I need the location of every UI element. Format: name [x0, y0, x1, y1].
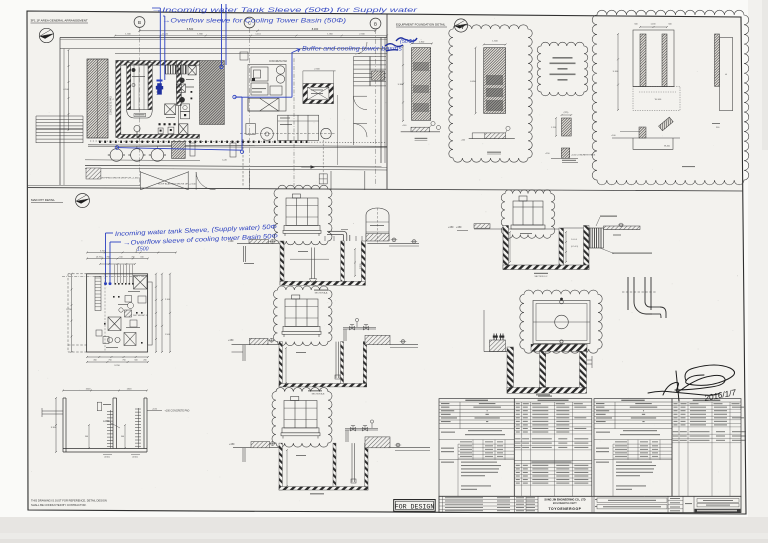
- svg-text:2.100: 2.100: [165, 299, 171, 301]
- S5 pit walls: [507, 347, 514, 393]
- svg-text:+150: +150: [229, 443, 235, 446]
- svg-text:→Overflow sleeve for Cooling T: →Overflow sleeve for Cooling Tower Basin…: [162, 18, 346, 25]
- pit plan dims top: [86, 252, 177, 254]
- svg-text:1.200: 1.200: [650, 24, 656, 26]
- grid bubble B: [134, 17, 145, 28]
- svg-text:+100 CONCRETE PAD: +100 CONCRETE PAD: [165, 410, 190, 413]
- plan outline: [633, 30, 674, 87]
- S4 label: [534, 273, 548, 274]
- svg-text:→Incoming water Tank Sleeve (5: →Incoming water Tank Sleeve (50Φ) for Su…: [151, 7, 418, 14]
- right column detail: [720, 38, 733, 111]
- pit section S3: [279, 443, 282, 490]
- svg-text:(150): (150): [104, 457, 109, 459]
- svg-text:5.700: 5.700: [66, 309, 72, 311]
- svg-text:SUNG JIN ENGINEERING CO., LTD: SUNG JIN ENGINEERING CO., LTD: [544, 499, 585, 502]
- svg-text:+150: +150: [228, 339, 234, 342]
- S3 right pad: [365, 437, 390, 448]
- svg-text:5.300: 5.300: [398, 84, 404, 86]
- north arrow: [76, 194, 90, 208]
- left dim chain: [68, 49, 70, 131]
- S4 sump right: [590, 228, 601, 248]
- svg-text:1.500: 1.500: [165, 334, 171, 336]
- svg-text:3F1 1F AREA GENERAL ARRANGEMEN: 3F1 1F AREA GENERAL ARRANGEMENT: [31, 19, 88, 23]
- S1 right water tank: [366, 208, 389, 241]
- svg-text:MAIN PIT DETAIL: MAIN PIT DETAIL: [31, 198, 55, 202]
- foundation 2 revision cloud: [449, 25, 532, 162]
- water level: [290, 258, 329, 260]
- svg-text:3.300: 3.300: [51, 427, 57, 429]
- blue dots in plan: [221, 4, 223, 65]
- top dimension line: [138, 30, 376, 32]
- svg-text:+100: +100: [402, 125, 406, 127]
- ladder rungs chamber 1: [107, 410, 113, 449]
- svg-text:+150: +150: [228, 240, 234, 243]
- left pipe into pit: [42, 410, 63, 412]
- S2 left pad: [249, 338, 268, 344]
- svg-text:2.300: 2.300: [314, 68, 320, 70]
- pipe bank comb: [166, 65, 186, 74]
- dim chains sides: [71, 273, 73, 353]
- cold water tank: [131, 64, 148, 110]
- svg-text:1500: 1500: [137, 247, 149, 253]
- grid line: [249, 28, 251, 186]
- pump circle: [151, 149, 164, 162]
- svg-text:1.300: 1.300: [419, 42, 425, 44]
- S2 dims/labels: [285, 347, 287, 384]
- foundation 1 hatched column: [412, 48, 431, 121]
- signature scribble: [648, 365, 735, 401]
- section 1 revision cloud: [274, 185, 332, 245]
- svg-text:4.100: 4.100: [63, 89, 69, 91]
- svg-text:ROOF BLASTING GROVE UFL+2.100: ROOF BLASTING GROVE UFL+2.100: [158, 183, 197, 186]
- svg-text:6.450: 6.450: [470, 81, 476, 83]
- project name box: [593, 496, 595, 513]
- dark hatched strip right of room: [200, 61, 225, 125]
- 1500 leader arc: [136, 246, 140, 253]
- svg-text:W-100: W-100: [655, 99, 662, 101]
- S4 ground strips: [474, 228, 503, 230]
- S3 interior pipe: [351, 443, 353, 482]
- svg-text:EQUIPMENT FOUNDATION DETAIL: EQUIPMENT FOUNDATION DETAIL: [396, 23, 446, 27]
- section 5 revision cloud: [520, 290, 602, 353]
- svg-text:W-100: W-100: [664, 146, 671, 148]
- S1 left pipe: [243, 246, 245, 262]
- ladder pit section bottom-left: [63, 398, 147, 452]
- revision table: [442, 496, 444, 512]
- section 4 revision cloud: [501, 190, 555, 239]
- north arrow: [454, 19, 467, 32]
- S5 left pedestal with anchor bolts: [490, 340, 506, 352]
- foundation 2 pad section: [472, 132, 485, 134]
- cloud label: [682, 166, 695, 167]
- pit section S2: [279, 342, 282, 387]
- svg-text:B: B: [374, 21, 377, 26]
- elevation symbols: [271, 240, 275, 244]
- left stair: [36, 116, 83, 143]
- water tank label: [370, 225, 384, 226]
- shaft centerline: [240, 133, 335, 135]
- tank pad: [366, 234, 389, 241]
- S5 pump plan in cloud: [533, 300, 590, 343]
- svg-text:SECTION C-C: SECTION C-C: [535, 276, 549, 278]
- S4 equipment inside cloud: [511, 196, 545, 229]
- pit section S1: [280, 241, 284, 285]
- pit label a: [311, 89, 323, 92]
- building right wall: [380, 38, 382, 164]
- floor hatch strips: [86, 168, 101, 179]
- dark pump block: [172, 141, 186, 158]
- S4 sump nozzle label: [600, 216, 617, 217]
- grid line x294: [293, 58, 295, 186]
- hatched strip b: [662, 34, 667, 87]
- dark hatched equipment strip (cooling tower): [87, 59, 108, 138]
- equipment description table left: [439, 399, 514, 497]
- blue annotation line 1: incoming water tank sleeve: [151, 7, 418, 53]
- blue sleeve fitting: [157, 83, 162, 94]
- svg-text:1500: 1500: [86, 389, 92, 391]
- dashed pad outline: [633, 86, 680, 110]
- svg-text:C-45: C-45: [222, 160, 228, 162]
- plot number block: [697, 499, 739, 503]
- S1 left pad: [249, 240, 269, 244]
- S4 top slab marks: [509, 228, 560, 230]
- S1 inner pipe: [311, 248, 313, 279]
- svg-text:TOYOENERGOP: TOYOENERGOP: [548, 507, 581, 511]
- S1 pipe from tank: [327, 230, 343, 232]
- dims: [62, 390, 148, 392]
- cooling tower basin pump S1: [283, 194, 321, 236]
- S3 left pad: [251, 442, 270, 448]
- svg-text:SHALL BE CONDUCTED BY CONTRACT: SHALL BE CONDUCTED BY CONTRACTOR.: [31, 503, 87, 507]
- section D-D label above table: [536, 394, 550, 395]
- pump circle: [110, 149, 123, 162]
- svg-text:ENGINEERING DEPT.: ENGINEERING DEPT.: [553, 502, 578, 505]
- buffer tank S2: [282, 295, 321, 337]
- dark bar bottom right: [695, 509, 741, 513]
- blue leader lines: [159, 8, 161, 88]
- S1 ground lines: [237, 242, 279, 244]
- svg-text:8.300: 8.300: [312, 27, 319, 31]
- svg-text:AIR PIPING GROVE DROP UFL+1.35: AIR PIPING GROVE DROP UFL+1.350: [100, 177, 139, 180]
- flow arrow: [301, 166, 313, 168]
- grid line: [139, 27, 141, 186]
- S3 label: [310, 493, 324, 494]
- svg-text:5.100: 5.100: [613, 71, 619, 73]
- svg-text:+150: +150: [448, 226, 454, 229]
- refrigeration pump unit: [246, 115, 331, 140]
- S1 small marks above pit: [324, 236, 326, 241]
- equipment description table right: [594, 399, 672, 497]
- building outline top: [60, 37, 387, 39]
- S2 ground lines: [232, 344, 280, 346]
- room interior equipment: [188, 66, 196, 75]
- svg-text:3.700: 3.700: [114, 365, 120, 367]
- svg-text:2.340: 2.340: [359, 34, 365, 36]
- brace bay below corridor: [141, 172, 189, 190]
- svg-text:1.360: 1.360: [327, 34, 333, 36]
- grid line: [375, 29, 377, 186]
- S2 interior pipe: [335, 342, 337, 378]
- S3 ground lines: [233, 447, 279, 449]
- nozzle list table left: [514, 399, 592, 497]
- svg-text:Buffer and cooling tower basin: Buffer and cooling tower basins: [302, 46, 402, 53]
- blue pipe run corridor: [117, 148, 242, 151]
- svg-text:3.700: 3.700: [100, 251, 106, 253]
- svg-text:WET WEIGHT 4T: WET WEIGHT 4T: [133, 315, 149, 317]
- svg-text:+100: +100: [461, 140, 465, 142]
- small pad section: [561, 148, 569, 158]
- tank label: [132, 76, 145, 77]
- chiller / AHU unit: [248, 65, 286, 112]
- small ticks under chambers: [88, 424, 90, 449]
- ladder rungs chamber 2: [135, 408, 141, 449]
- water tank room: [127, 63, 131, 110]
- svg-text:1.0-0.0: 1.0-0.0: [571, 239, 577, 241]
- blue annotations main pit: [115, 224, 279, 253]
- svg-text:B: B: [138, 20, 141, 25]
- top right stairs (horizontal treads): [354, 57, 387, 146]
- FOR DESIGN stamp: [394, 500, 436, 512]
- section-2 label: [487, 152, 501, 153]
- tank S3: [281, 397, 320, 439]
- svg-text:1.411: 1.411: [255, 34, 261, 36]
- section-1 label: [415, 138, 428, 139]
- svg-text:(225): (225): [564, 112, 569, 114]
- pump circle: [131, 149, 144, 162]
- pit plan outline: [87, 274, 148, 352]
- svg-text:(3.7m): (3.7m): [96, 257, 103, 259]
- small box with cross: [319, 174, 327, 184]
- pipe penetration detail: [622, 277, 657, 314]
- svg-text:(1.141: (1.141: [162, 34, 169, 36]
- S3 valve piping right: [345, 428, 378, 430]
- corridor: [90, 141, 387, 143]
- divider v: [386, 14, 388, 189]
- door arc lower band: [196, 172, 215, 190]
- S1 interior dims: [354, 248, 356, 277]
- divider h: [28, 188, 743, 191]
- big revision cloud foundation plan: [592, 10, 749, 185]
- title block strip: [439, 496, 741, 512]
- S2 right pad: [365, 335, 390, 344]
- nozzle list table right: [672, 399, 741, 497]
- machine room walls: [116, 61, 200, 66]
- S4 interior dims: [565, 231, 567, 263]
- svg-text:1.150: 1.150: [551, 127, 557, 129]
- foundation 1 pad: [411, 127, 430, 132]
- concrete pad note: [147, 410, 162, 412]
- foundation 2 pad: [485, 133, 506, 139]
- svg-text:+100: +100: [152, 409, 158, 411]
- hatched pit box no.2: [303, 84, 334, 104]
- S1 label: [314, 290, 328, 291]
- S5 slab: [531, 344, 587, 351]
- section 2 revision cloud: [274, 286, 333, 346]
- S4 pit with crosshatched walls: [503, 226, 509, 270]
- hatched strip a: [640, 34, 646, 87]
- S5 left vertical line: [483, 310, 485, 352]
- dim over pit box: [303, 70, 336, 72]
- S2 valve piping right: [343, 327, 376, 329]
- svg-text:(50Φ): (50Φ): [400, 39, 415, 45]
- S2 left pipe: [242, 345, 244, 361]
- x pump box big: [134, 276, 148, 290]
- svg-text:1.340: 1.340: [125, 34, 131, 36]
- S4 anti note: [612, 253, 652, 254]
- svg-text:THIS DRAWING IS JUST FOR REFER: THIS DRAWING IS JUST FOR REFERENCE, DETA…: [31, 498, 107, 502]
- pedestal section in big cloud: [612, 137, 680, 139]
- stair dark block: [372, 71, 385, 81]
- svg-text:1.500: 1.500: [492, 41, 498, 43]
- svg-text:1.940: 1.940: [197, 34, 203, 36]
- blue margin scribble: [385, 38, 417, 51]
- svg-text:+150: +150: [456, 226, 462, 229]
- svg-text:SECTION A-A: SECTION A-A: [315, 292, 328, 295]
- S5 label: [538, 396, 552, 397]
- door arcs right: [354, 96, 368, 110]
- svg-text:LADD.: LADD.: [103, 420, 110, 423]
- foundation 2 hatched column: [484, 48, 506, 114]
- sleeve leader verticals: [115, 265, 133, 284]
- middle small grid: [514, 499, 538, 501]
- deleted foundations cloud: [537, 42, 588, 96]
- building left wall: [59, 38, 61, 186]
- svg-text:5.500: 5.500: [187, 27, 194, 31]
- svg-text:1300: 1300: [127, 389, 133, 391]
- section 3 revision cloud: [272, 388, 332, 447]
- north arrow: [39, 28, 53, 42]
- svg-text:CONCRETE PAD: CONCRETE PAD: [110, 96, 113, 115]
- svg-text:(0.5-0.5): (0.5-0.5): [571, 246, 579, 248]
- dashed extension: [67, 274, 69, 352]
- small foundation square: [562, 118, 572, 136]
- S5 right stub: [587, 359, 593, 361]
- top pipe stub: [97, 402, 101, 411]
- svg-text:SECTION B-B: SECTION B-B: [312, 393, 325, 395]
- svg-text:FOR DESIGN: FOR DESIGN: [395, 503, 435, 510]
- corridor risers: [190, 143, 195, 156]
- blue leaders main pit: [106, 232, 114, 234]
- svg-text:5/F31: 5/F31: [360, 263, 362, 269]
- pit interior: [95, 277, 101, 311]
- svg-text:CONCRETE PAD: CONCRETE PAD: [269, 60, 287, 63]
- dwg number cells: [668, 499, 683, 501]
- svg-text:(150): (150): [132, 457, 137, 459]
- right wall edge lower: [178, 106, 180, 135]
